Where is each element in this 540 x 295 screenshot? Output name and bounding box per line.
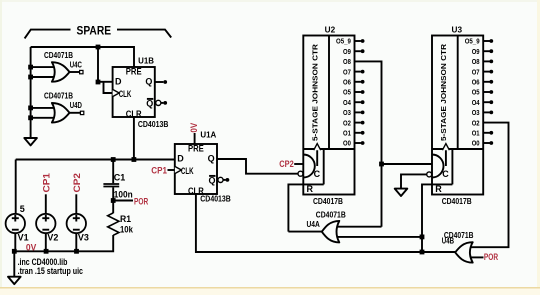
svg-text:U1B: U1B <box>138 56 154 65</box>
wire: U3 CP1 bubble to ground <box>427 172 432 177</box>
svg-text:R: R <box>435 184 442 194</box>
svg-text:CP2: CP2 <box>72 173 82 193</box>
svg-text:C: C <box>442 169 449 179</box>
U1A CLK pin label and wedge <box>175 166 182 173</box>
ground at U3 clock enable <box>395 189 408 196</box>
U3 carry arrow <box>445 150 447 167</box>
svg-text:D: D <box>115 77 122 87</box>
svg-text:C1: C1 <box>114 172 126 182</box>
svg-text:0V: 0V <box>189 123 199 133</box>
svg-text:V1: V1 <box>18 232 29 242</box>
svg-text:PRE: PRE <box>188 144 204 154</box>
svg-text:D: D <box>177 154 184 164</box>
svg-text:O0: O0 <box>343 139 351 148</box>
SPARE bracket annotation <box>25 30 71 39</box>
svg-text:100n: 100n <box>114 190 133 200</box>
svg-text:5-STAGE JOHNSON CTR: 5-STAGE JOHNSON CTR <box>439 43 448 141</box>
svg-text:0V: 0V <box>26 243 36 253</box>
node: junction O8 net to U3 C <box>379 162 384 167</box>
svg-text:U1A: U1A <box>200 131 216 140</box>
wire: gate input column <box>30 47 32 138</box>
ground below gate input column <box>24 138 37 145</box>
bubble on U2 CP1 input <box>298 171 303 176</box>
wire: U4D inputs <box>31 108 55 118</box>
svg-text:O7: O7 <box>472 67 480 76</box>
svg-text:POR: POR <box>484 252 499 262</box>
node: C1 junction on mid rail <box>111 157 116 162</box>
svg-text:O4: O4 <box>343 98 352 107</box>
svg-text:U4A: U4A <box>307 220 320 229</box>
svg-text:CLK: CLK <box>119 89 132 99</box>
johnson counter U2 CD4017B body <box>303 36 354 195</box>
svg-text:U4B: U4B <box>442 236 454 245</box>
wire: U2 O8 to U3 clock and down to U4A input <box>355 61 382 226</box>
or-gate U4A CD4071B (mirrored) <box>288 231 322 233</box>
U1A Qbar bubble and terminal <box>218 177 223 182</box>
wire: U4C inputs <box>31 67 55 77</box>
wire: U1A CLR down and right to U4B output <box>196 194 455 252</box>
svg-text:O3: O3 <box>472 108 480 117</box>
svg-text:C: C <box>314 169 321 179</box>
svg-text:CP1: CP1 <box>151 165 167 175</box>
svg-text:V2: V2 <box>47 233 58 243</box>
ground below V1 <box>13 251 15 276</box>
svg-text:U4C: U4C <box>70 60 82 69</box>
node: U4C input junctions <box>28 65 33 70</box>
svg-text:O9: O9 <box>472 47 480 56</box>
U1B Qbar bubble and terminal <box>156 100 161 105</box>
svg-text:CD4017B: CD4017B <box>313 197 343 206</box>
svg-text:O5_9: O5_9 <box>336 37 351 46</box>
svg-text:O0: O0 <box>472 139 480 148</box>
or-gate U4D CD4071B <box>52 103 70 123</box>
svg-text:10k: 10k <box>120 224 134 234</box>
svg-text:.tran .15 startup uic: .tran .15 startup uic <box>18 266 83 276</box>
svg-text:O8: O8 <box>343 57 351 66</box>
U1B CLK pin label and wedge <box>113 89 120 96</box>
svg-text:O4: O4 <box>472 98 481 107</box>
capacitor C1 <box>112 160 114 184</box>
svg-text:U3: U3 <box>452 26 463 35</box>
svg-text:O7: O7 <box>343 67 351 76</box>
U3 clock arc C pin <box>432 155 444 178</box>
svg-text:CP2: CP2 <box>279 159 294 169</box>
svg-text:SPARE: SPARE <box>77 25 112 37</box>
johnson counter U3 CD4017B body <box>432 36 483 195</box>
page border frame <box>0 0 540 2</box>
svg-text:CD4071B: CD4071B <box>44 51 73 60</box>
svg-text:R: R <box>307 184 314 194</box>
or-gate U4B CD4071B (mirrored) <box>470 256 484 258</box>
svg-text:CD4071B: CD4071B <box>316 210 346 219</box>
wire: U3 O2 down to U4B input <box>470 123 509 248</box>
svg-text:CD4013B: CD4013B <box>138 120 169 129</box>
U2 carry arrow <box>316 150 318 167</box>
svg-text:CD4071B: CD4071B <box>44 92 73 101</box>
wire: U1B Q output to terminal <box>155 81 164 83</box>
resistor R1 10k <box>112 201 114 214</box>
wire: mid rail net from V1 to U1A D <box>16 159 175 161</box>
svg-text:U2: U2 <box>325 26 336 35</box>
svg-text:O1: O1 <box>472 129 480 138</box>
svg-text:V3: V3 <box>78 233 89 243</box>
wire: top rail from gate column to U1B PRE <box>31 47 134 68</box>
svg-text:CP1: CP1 <box>41 173 51 193</box>
svg-text:O8: O8 <box>472 57 480 66</box>
wire: U1B CLR down to mid rail <box>133 117 135 160</box>
svg-text:CLK: CLK <box>181 166 194 176</box>
svg-text:U4D: U4D <box>70 101 82 110</box>
svg-text:O5: O5 <box>472 88 480 97</box>
svg-text:O5: O5 <box>343 88 351 97</box>
svg-text:Q: Q <box>208 154 215 164</box>
svg-text:R1: R1 <box>120 214 131 224</box>
svg-text:Q: Q <box>208 176 215 186</box>
wire: U1A Q to U2 clock bubble <box>217 159 298 174</box>
wire: U3 R pin to U4B net vertical <box>422 184 452 252</box>
svg-text:5: 5 <box>20 204 25 214</box>
svg-text:PRE: PRE <box>126 67 142 77</box>
wire: U4C output to open terminal <box>70 71 80 73</box>
U2 clock arc C pin <box>303 155 315 178</box>
voltage source V1 <box>15 160 17 215</box>
wire: U1A PRE stub <box>194 133 196 144</box>
svg-text:O6: O6 <box>472 78 480 87</box>
svg-text:O1: O1 <box>343 129 351 138</box>
svg-text:O9: O9 <box>343 47 351 56</box>
svg-text:O2: O2 <box>472 118 480 127</box>
svg-text:5-STAGE JOHNSON CTR: 5-STAGE JOHNSON CTR <box>310 43 319 141</box>
svg-text:O5_9: O5_9 <box>465 37 480 46</box>
flip-flop U1A CD4013B body <box>175 144 217 194</box>
flip-flop U1B CD4013B body <box>113 67 155 117</box>
node: junctions on U4B net <box>420 235 425 240</box>
wire: junction down to D/CLK of U1B <box>97 47 99 82</box>
node: POR junction under C1 <box>111 198 116 203</box>
or-gate U4C CD4071B <box>52 62 70 81</box>
wire: bottom 0V rail <box>14 235 113 251</box>
svg-text:O6: O6 <box>343 78 351 87</box>
svg-text:CD4013B: CD4013B <box>200 195 231 204</box>
svg-text:O3: O3 <box>343 108 351 117</box>
wire: U2 R pin to U4A output <box>288 184 323 231</box>
node: U4D input junctions <box>28 106 33 111</box>
svg-text:O2: O2 <box>343 118 351 127</box>
svg-text:Q: Q <box>146 99 153 109</box>
svg-text:Q: Q <box>145 77 152 87</box>
node: junction on top rail <box>96 45 101 50</box>
svg-text:POR: POR <box>134 197 149 207</box>
wire: U4D output to open terminal <box>70 112 81 114</box>
svg-text:CD4017B: CD4017B <box>442 197 472 206</box>
